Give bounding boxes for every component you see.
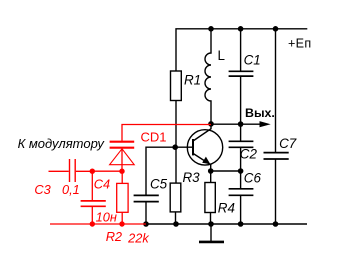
svg-text:R2: R2 (106, 229, 122, 244)
wire red node row (92, 170, 122, 172)
svg-text:Вых.: Вых. (245, 106, 275, 120)
wire collector node row (211, 123, 241, 125)
capacitor C3 (49, 159, 93, 182)
svg-text:C3: C3 (34, 182, 50, 197)
transistor emitter lead (193, 153, 211, 171)
svg-text:L: L (218, 48, 225, 63)
resistor R4 (205, 171, 215, 224)
wire base row to C5 (146, 147, 193, 195)
svg-text:C7: C7 (279, 136, 297, 151)
resistor R1 (171, 71, 182, 101)
capacitor C2 (229, 124, 254, 171)
varicap CD1 cathode bars (110, 141, 135, 143)
svg-text:+Еп: +Еп (288, 36, 311, 50)
capacitor C7 (264, 29, 289, 224)
capacitor C4 (81, 171, 106, 224)
inductor L (205, 29, 211, 124)
capacitor C1 (229, 29, 254, 124)
svg-text:C4: C4 (94, 176, 110, 191)
wire R1 bottom to base node (175, 100, 177, 147)
wire output stub (241, 123, 264, 125)
svg-text:10н: 10н (96, 209, 117, 224)
svg-text:К модулятору: К модулятору (18, 136, 106, 151)
resistor R2 (117, 171, 128, 224)
svg-text:R4: R4 (218, 201, 235, 216)
svg-text:C2: C2 (240, 147, 258, 162)
transistor Q1 circle (187, 130, 222, 165)
wire emitter row (211, 170, 241, 172)
capacitor C5 (134, 195, 159, 224)
svg-text:R3: R3 (183, 170, 201, 185)
svg-text:C5: C5 (150, 177, 168, 192)
svg-text:C6: C6 (244, 171, 262, 186)
wire red bottom rail (50, 223, 146, 225)
svg-text:C1: C1 (244, 53, 261, 68)
transistor collector lead (193, 124, 211, 141)
svg-text:CD1: CD1 (141, 130, 167, 145)
svg-text:0,1: 0,1 (62, 182, 80, 197)
ground (199, 224, 224, 242)
wire CD1 anode lead (121, 149, 123, 171)
varicap CD1 triangle (110, 149, 135, 165)
wire red varicap top to collector node (122, 125, 211, 141)
output arrow head (260, 121, 271, 127)
transistor emitter arrow (202, 157, 210, 165)
wire bottom ground rail (146, 223, 307, 225)
resistor R3 (170, 147, 181, 224)
svg-text:R1: R1 (184, 73, 201, 88)
junction dots black (143, 26, 278, 227)
capacitor C6 (229, 171, 254, 224)
wire top rail to +Ep (176, 29, 307, 71)
svg-text:22k: 22k (127, 230, 149, 245)
transistor base bar (192, 139, 194, 155)
junction dots red (90, 169, 125, 227)
